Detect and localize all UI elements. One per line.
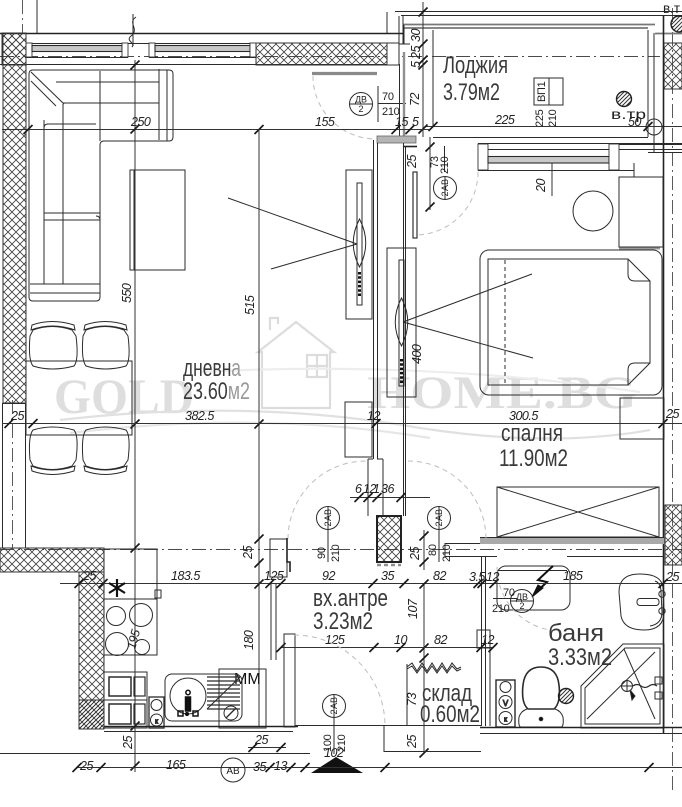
- svg-text:210: 210: [441, 544, 453, 562]
- chair top-right: [82, 322, 129, 370]
- bedroom round side table: [573, 191, 613, 231]
- axis dash-dot horizontal antre/bath: [0, 549, 682, 551]
- svg-text:1: 1: [373, 482, 379, 496]
- vertical dim line x=135: [134, 60, 136, 772]
- svg-text:ВП1: ВП1: [536, 81, 548, 102]
- axis stub top-left corner: [22, 0, 24, 33]
- dim row y=424 (25 / 382.5 / 12 / 300.5 / 25): [2, 407, 682, 428]
- antre north-east step (bath left pillar): [477, 630, 490, 648]
- 20 dim bedroom window: [551, 163, 553, 196]
- shaft panel with V K circles: [496, 680, 515, 727]
- svg-text:15: 15: [395, 115, 408, 129]
- wall break symbol above mullion: [129, 14, 136, 47]
- sink unit: [165, 674, 242, 721]
- svg-text:2: 2: [358, 104, 363, 114]
- leader lines to panel 1: [228, 198, 357, 244]
- svg-text:25: 25: [405, 735, 419, 749]
- kitchen/antre wall stub: [270, 584, 272, 660]
- svg-text:12: 12: [367, 409, 380, 423]
- svg-text:180: 180: [242, 630, 256, 650]
- kitchen upper cabinet: [104, 549, 157, 599]
- kitchen bottom wall: [104, 726, 298, 728]
- kitchen west hatch lower part: [79, 700, 104, 729]
- svg-text:90: 90: [316, 547, 328, 559]
- svg-text:82: 82: [434, 633, 447, 647]
- dining table: [26, 361, 132, 435]
- door label AV2 90/210 (left): [316, 507, 342, 563]
- svg-text:25: 25: [254, 733, 268, 747]
- stove with burners: [104, 599, 157, 656]
- svg-text:35: 35: [381, 569, 394, 583]
- svg-text:183.5: 183.5: [171, 569, 200, 583]
- kitchen lower cabinet squares: [104, 672, 147, 728]
- vertical dim line x=259: [258, 129, 260, 726]
- shaft column crosshatch: [377, 516, 401, 562]
- svg-text:125: 125: [325, 633, 345, 647]
- bath door label DV2 70/210: [492, 587, 534, 615]
- bedroom/bath wall gray band: [480, 538, 664, 544]
- asterisk symbol: [109, 579, 125, 597]
- svg-text:107: 107: [406, 598, 420, 619]
- svg-text:6: 6: [355, 482, 362, 496]
- svg-text:210: 210: [492, 603, 510, 615]
- antre east wall / sklad right wall: [481, 556, 483, 726]
- svg-text:210: 210: [439, 156, 451, 174]
- svg-text:185: 185: [563, 569, 583, 583]
- chair bottom-left: [29, 427, 77, 475]
- drain hatched circle: [559, 689, 574, 704]
- bath bottom wall: [480, 727, 682, 729]
- svg-text:V: V: [503, 699, 509, 708]
- bath door swing: [497, 567, 561, 631]
- svg-text:25: 25: [408, 547, 422, 561]
- svg-text:13: 13: [274, 759, 287, 773]
- shower mixer icon: [621, 677, 662, 700]
- corner hatched circle top right: [671, 16, 682, 32]
- svg-text:3.23м2: 3.23м2: [313, 608, 373, 635]
- coffee table: [130, 170, 185, 270]
- svg-text:10: 10: [394, 633, 407, 647]
- svg-text:36: 36: [381, 482, 394, 496]
- sklad zigzag: [407, 663, 461, 671]
- left jamb step block: [270, 539, 287, 577]
- svg-text:АВ: АВ: [434, 509, 444, 521]
- svg-text:11.90м2: 11.90м2: [499, 445, 568, 472]
- top dim cluster x=423: [408, 2, 428, 137]
- svg-text:25: 25: [665, 407, 679, 421]
- svg-text:250: 250: [130, 115, 151, 129]
- divider widened base: [368, 459, 383, 516]
- axis dash-dot vertical right boundary: [672, 8, 674, 790]
- loggia floor inner edge left: [432, 30, 434, 126]
- svg-text:70: 70: [503, 587, 515, 599]
- svg-text:25: 25: [121, 736, 135, 750]
- svg-text:102: 102: [324, 746, 344, 760]
- svg-text:АВ: АВ: [226, 766, 240, 777]
- svg-text:5: 5: [409, 61, 423, 68]
- svg-text:0.60м2: 0.60м2: [420, 701, 480, 728]
- small circle at 50 dim: [646, 119, 662, 135]
- corner sofa: [29, 69, 173, 301]
- living window 1: [26, 43, 256, 58]
- dim row y=583: [60, 569, 682, 588]
- door label AV2 80/210 (right): [427, 507, 453, 563]
- furniture rect at living SE corner: [345, 402, 372, 457]
- svg-text:3.5: 3.5: [469, 570, 485, 584]
- kitchen north wall hatch strip: [0, 548, 104, 572]
- small 2-circle panel: [149, 697, 164, 728]
- 6/12/1/36 mini dims above column: [350, 482, 430, 502]
- MM dishwasher box: [219, 669, 266, 728]
- dim row y=647 (125/10/82/12): [277, 633, 498, 652]
- loggia parapet wall (gray double): [403, 24, 655, 26]
- nightstand 1 (top right): [619, 177, 663, 247]
- 107 vertical dim: [423, 584, 425, 753]
- leader lines from panel 2: [403, 274, 532, 322]
- svg-text:Лоджия: Лоджия: [443, 52, 508, 79]
- top wall white pier: [387, 43, 399, 65]
- bedroom north wall top line: [478, 143, 682, 145]
- left exterior wall crosshatch: [3, 33, 26, 403]
- loggia door leaf (open against wall): [312, 72, 377, 75]
- svg-text:25: 25: [82, 569, 96, 583]
- svg-text:3.79м2: 3.79м2: [443, 79, 500, 106]
- living/antre opening double door swings: [288, 461, 366, 539]
- axis dash-dot vertical left: [12, 400, 14, 548]
- svg-text:25: 25: [241, 546, 255, 560]
- wardrobe with X: [497, 487, 659, 537]
- svg-text:АВ: АВ: [440, 179, 450, 191]
- dim row y=129 (250 / 155 / 15): [2, 115, 430, 134]
- loggia/bed window lower wall line: [616, 144, 682, 146]
- entrance black triangle: [311, 757, 363, 773]
- svg-text:30: 30: [409, 29, 423, 42]
- svg-text:в.т: в.т: [663, 1, 680, 16]
- svg-text:12: 12: [481, 633, 494, 647]
- sliding panel 1 (living side): [346, 170, 372, 319]
- faucet icon: [178, 690, 198, 716]
- svg-text:5: 5: [412, 115, 419, 129]
- entrance label AV2 100/210: [322, 695, 348, 761]
- svg-text:155: 155: [315, 115, 335, 129]
- v.tr hatched circle in loggia: [617, 92, 632, 107]
- svg-text:АВ: АВ: [329, 697, 339, 709]
- svg-text:73: 73: [405, 693, 419, 706]
- svg-text:382.5: 382.5: [185, 409, 214, 423]
- entrance door swing: [294, 635, 385, 726]
- svg-text:92: 92: [322, 569, 335, 583]
- svg-text:70: 70: [382, 91, 394, 103]
- bedroom door label AV2 73/210: [429, 146, 457, 200]
- kitchen west wall hatch: [79, 572, 104, 729]
- loggia left wall (to bedroom wall): [399, 64, 401, 137]
- svg-text:210: 210: [547, 109, 559, 127]
- svg-text:спалня: спалня: [501, 420, 563, 447]
- svg-text:ДВ: ДВ: [355, 95, 367, 105]
- svg-text:400: 400: [410, 344, 424, 364]
- door label DV2 70/210 (loggia door): [350, 86, 407, 122]
- svg-text:12: 12: [486, 570, 499, 584]
- watermark: [54, 318, 650, 439]
- chair bottom-right: [82, 427, 129, 475]
- svg-text:25: 25: [79, 759, 93, 773]
- boiler above bath door: [497, 566, 570, 610]
- svg-text:80: 80: [427, 544, 439, 556]
- loggia bottom dim line: [425, 126, 682, 128]
- 25 mini dim right of column: [408, 530, 429, 570]
- svg-text:25: 25: [10, 409, 24, 423]
- svg-text:210: 210: [330, 544, 342, 562]
- bottom dim row: [73, 758, 682, 782]
- svg-text:23.60м2: 23.60м2: [183, 378, 250, 405]
- svg-text:165: 165: [166, 758, 186, 772]
- left wall thin continuation below: [2, 403, 4, 548]
- right outer wall line: [663, 16, 665, 422]
- loggia bottom wall line: [433, 137, 648, 139]
- svg-text:125: 125: [264, 569, 284, 583]
- nightstand 2 (right, below bed): [620, 398, 664, 439]
- svg-text:550: 550: [120, 283, 134, 303]
- bath north wall lines: [445, 556, 664, 558]
- shower cabin: [581, 644, 664, 728]
- loggia right inner wall: [647, 30, 649, 137]
- antre/sklad bottom wall: [295, 725, 481, 727]
- svg-text:2: 2: [329, 709, 339, 714]
- svg-text:515: 515: [243, 295, 257, 315]
- svg-text:баня: баня: [548, 620, 604, 647]
- svg-text:25: 25: [409, 46, 423, 60]
- lightning arrow to boiler: [534, 566, 553, 594]
- svg-text:GOLD: GOLD: [54, 368, 194, 424]
- svg-text:3.33м2: 3.33м2: [548, 644, 612, 671]
- bedroom window: [478, 144, 634, 177]
- bed: [480, 250, 662, 395]
- top-left corner crosshatch: [2, 33, 26, 65]
- living window 2: [149, 43, 256, 58]
- entrance side wall strip: [284, 634, 295, 727]
- chair top-left: [29, 322, 77, 370]
- top wall outer line: [0, 33, 404, 35]
- svg-text:в.тр: в.тр: [611, 107, 646, 122]
- bedroom west wall: [403, 143, 405, 516]
- svg-text:2: 2: [519, 601, 524, 611]
- svg-text:72: 72: [408, 93, 422, 106]
- svg-text:225: 225: [494, 113, 515, 127]
- svg-text:2: 2: [440, 191, 450, 196]
- sliding panel 2 (bedroom side): [387, 248, 416, 397]
- small 25 dim below sink: [248, 733, 286, 752]
- bedroom door leaf: [413, 172, 417, 238]
- svg-text:25: 25: [405, 155, 419, 169]
- svg-text:225: 225: [534, 109, 546, 127]
- VP1 box in loggia: [534, 78, 563, 127]
- loggia left jamb step: [399, 15, 410, 65]
- bath sink: [619, 574, 665, 630]
- loggia door swing: [313, 76, 376, 139]
- line above entrance: [0, 753, 310, 755]
- loggia outer thin double line top: [395, 11, 682, 13]
- middle divider wall: [373, 140, 375, 459]
- right wall crosshatch mid: [665, 505, 682, 565]
- svg-text:HOME.BG: HOME.BG: [367, 367, 637, 419]
- 25 wall dim at bedroom door: [426, 143, 435, 152]
- bedroom door swing: [415, 172, 478, 235]
- svg-text:АВ: АВ: [323, 509, 333, 521]
- svg-text:2: 2: [434, 521, 444, 526]
- svg-text:35: 35: [253, 760, 266, 774]
- sklad west wall: [406, 664, 408, 725]
- right wall crosshatch top: [664, 43, 682, 89]
- toilet: [519, 667, 564, 727]
- svg-text:2: 2: [323, 521, 333, 526]
- top wall crosshatch segment: [256, 43, 387, 65]
- svg-text:25: 25: [665, 570, 679, 584]
- loggia bottom sill step: [377, 136, 416, 143]
- axis dash-dot horizontal top wall: [0, 56, 660, 58]
- top wall inner line: [0, 64, 399, 66]
- svg-text:82: 82: [433, 569, 446, 583]
- svg-text:20: 20: [534, 179, 548, 193]
